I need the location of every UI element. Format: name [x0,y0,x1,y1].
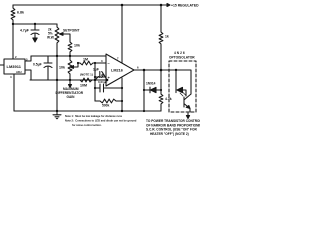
svg-text:1N914: 1N914 [146,82,156,86]
svg-text:Note 2: Connections to LED an: Note 2: Connections to LED and diode can… [65,119,137,123]
svg-text:Note 1: Must be low leakage f: Note 1: Must be low leakage for distance… [65,114,123,118]
svg-text:OPTOISOLATOR: OPTOISOLATOR [169,55,195,59]
svg-text:HEATER "OFF") (NOTE 2): HEATER "OFF") (NOTE 2) [150,132,189,136]
svg-text:W.W.: W.W. [47,36,55,40]
svg-text:for noise control action.: for noise control action. [72,123,102,127]
svg-text:10k: 10k [59,66,65,70]
svg-text:SETPOINT: SETPOINT [63,29,80,33]
svg-text:4.7μF: 4.7μF [20,29,29,33]
svg-text:LM3911: LM3911 [7,64,22,69]
svg-text:1μF: 1μF [93,68,99,72]
svg-text:0.01μF: 0.01μF [98,80,108,84]
svg-text:4.7k: 4.7k [165,97,172,101]
svg-text:1M: 1M [83,58,88,62]
svg-text:ADJ: ADJ [16,70,22,74]
svg-text:+15 REGULATED: +15 REGULATED [171,4,199,8]
svg-text:500k: 500k [102,104,110,108]
svg-text:1k: 1k [165,35,169,39]
svg-text:10k: 10k [74,44,80,48]
svg-text:0.5μF: 0.5μF [33,63,42,67]
svg-text:10M: 10M [80,84,87,88]
svg-text:6.8k: 6.8k [17,11,24,15]
svg-text:LM216: LM216 [111,69,123,73]
svg-text:(NOTE 1): (NOTE 1) [80,73,93,77]
svg-text:GAIN: GAIN [67,95,76,99]
